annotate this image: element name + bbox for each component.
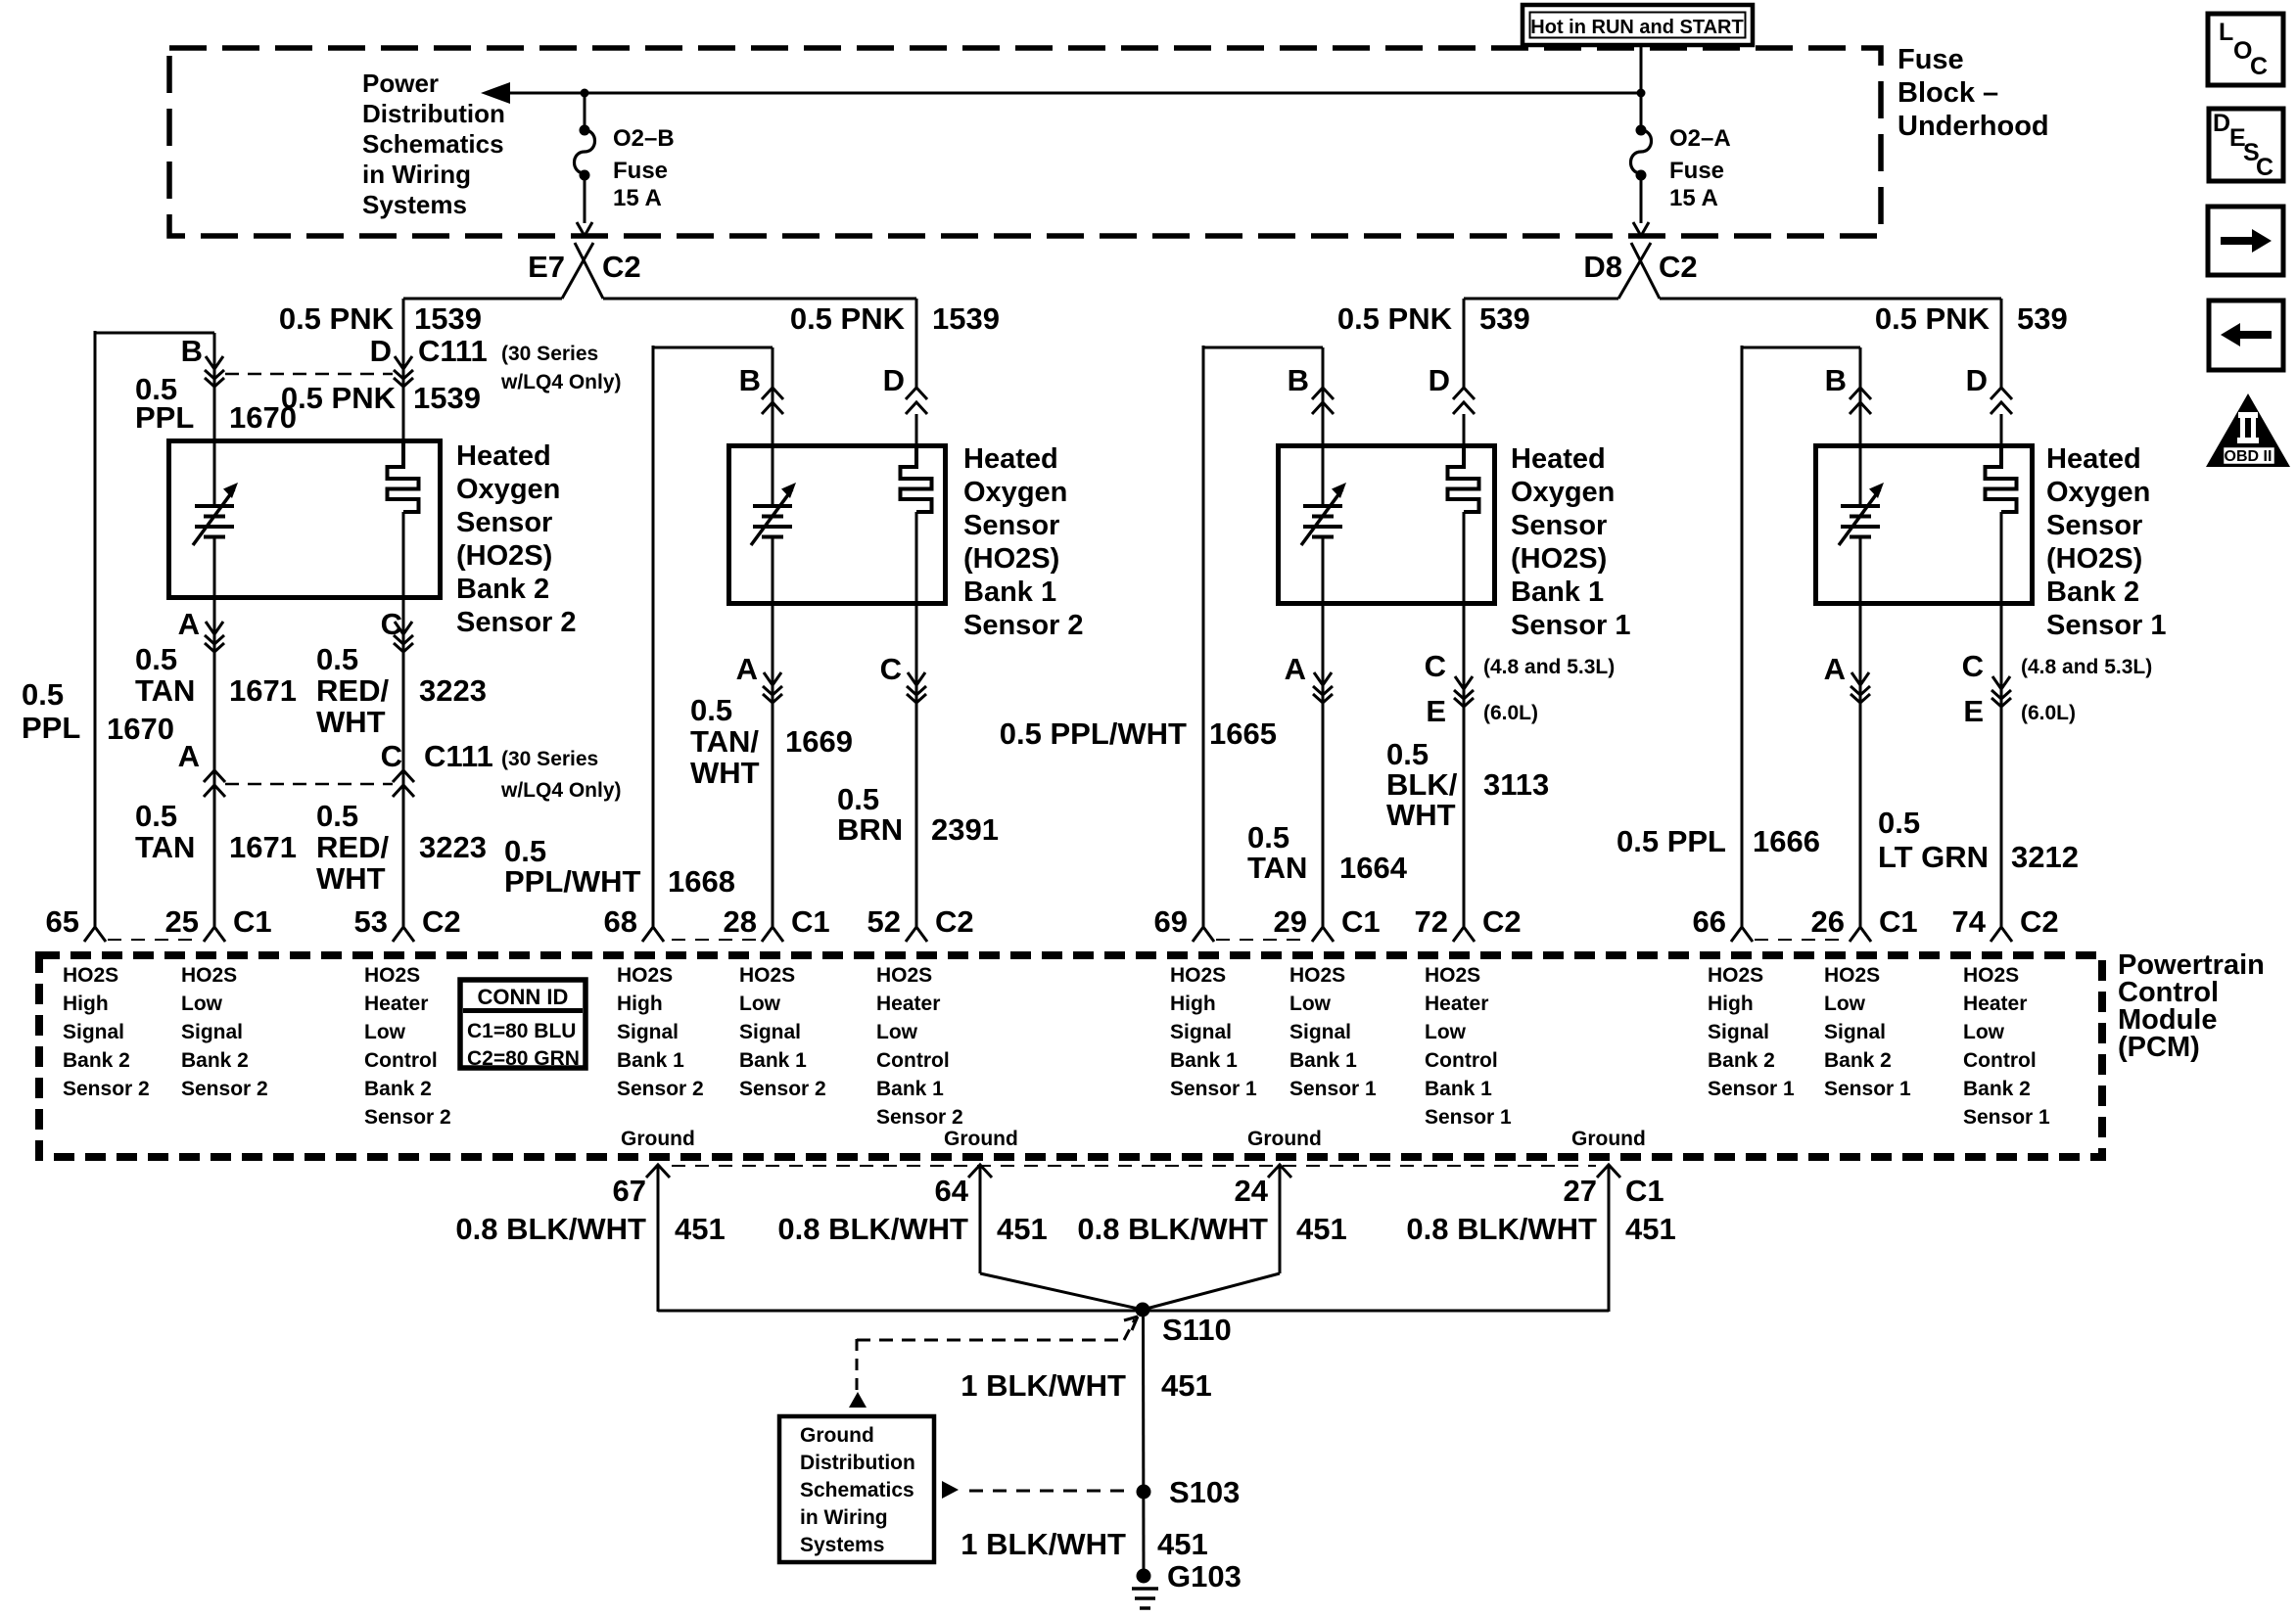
wire: g2 D lower (915, 512, 918, 927)
label: 0.5 PPL/WHT 1668 (504, 834, 735, 899)
svg-text:in Wiring: in Wiring (362, 160, 471, 189)
svg-text:Heated: Heated (1511, 443, 1606, 475)
label: PCM column at x=630 (617, 964, 704, 1100)
svg-text:0.8 BLK/WHT: 0.8 BLK/WHT (777, 1212, 968, 1246)
label: PCM column at x=1195 (1170, 964, 1257, 1100)
splice S103 (1137, 1485, 1151, 1500)
label: 0.5 PPL 1670 g1 B (135, 372, 297, 435)
pin 28 PCM (724, 904, 830, 942)
svg-text:Ground: Ground (621, 1128, 695, 1150)
svg-text:Sensor 2: Sensor 2 (739, 1078, 826, 1100)
svg-text:Sensor 2: Sensor 2 (456, 607, 577, 638)
svg-text:53: 53 (354, 904, 388, 939)
label: g2 B (739, 363, 761, 397)
svg-text:Distribution: Distribution (362, 99, 505, 128)
svg-text:A: A (1285, 652, 1306, 686)
svg-text:0.5 PNK: 0.5 PNK (279, 301, 395, 336)
svg-text:Sensor 2: Sensor 2 (364, 1106, 451, 1129)
sensor box HO2S Bank1 Sensor1 (1279, 446, 1495, 604)
svg-text:0.5 PNK: 0.5 PNK (790, 301, 906, 336)
svg-text:Power: Power (362, 69, 439, 98)
label: O2-B Fuse 15 A (613, 125, 675, 211)
svg-text:Heater: Heater (1963, 993, 2027, 1015)
svg-text:Block –: Block – (1898, 77, 1998, 109)
svg-text:HO2S: HO2S (1170, 964, 1226, 987)
wire: g4 B wire (1859, 347, 1862, 927)
svg-text:68: 68 (604, 904, 637, 939)
label: PCM column at x=185 (181, 964, 268, 1100)
label: g2 D (883, 363, 905, 397)
wire: g3 D inside box (1463, 414, 1466, 443)
wire: g3 D lower (1463, 512, 1466, 927)
svg-text:0.5: 0.5 (135, 799, 177, 833)
label: 0.5 LT GRN 3212 (1878, 806, 2079, 874)
svg-text:E7: E7 (528, 250, 565, 284)
svg-text:Ground: Ground (800, 1424, 874, 1447)
connector break g2 D top (906, 388, 927, 414)
wire: ground bus horizontal (658, 1310, 1609, 1313)
svg-text:Sensor 1: Sensor 1 (1170, 1078, 1257, 1100)
svg-text:Sensor 1: Sensor 1 (1425, 1106, 1512, 1129)
svg-text:Sensor: Sensor (1511, 510, 1607, 541)
svg-text:(HO2S): (HO2S) (456, 540, 552, 572)
connector: g1 A sensor plug (205, 622, 224, 652)
connector break g4 B top (1850, 388, 1871, 414)
svg-text:65: 65 (46, 904, 79, 939)
svg-text:(4.8 and 5.3L): (4.8 and 5.3L) (2021, 656, 2152, 678)
wire: hot feed vertical (1640, 45, 1643, 93)
svg-text:Underhood: Underhood (1898, 111, 2049, 142)
svg-text:Fuse: Fuse (1669, 158, 1724, 184)
svg-text:HO2S: HO2S (364, 964, 420, 987)
svg-text:0.5: 0.5 (504, 834, 546, 868)
node: bus junction at O2-B fuse (581, 89, 589, 98)
svg-text:High: High (1170, 993, 1216, 1015)
svg-text:451: 451 (1157, 1527, 1208, 1561)
svg-text:A: A (178, 607, 200, 641)
svg-text:Heated: Heated (2046, 443, 2141, 475)
svg-text:C1: C1 (1625, 1174, 1664, 1208)
svg-text:Sensor 1: Sensor 1 (1963, 1106, 2050, 1129)
svg-text:LT GRN: LT GRN (1878, 840, 1989, 874)
svg-text:CONN ID: CONN ID (478, 985, 569, 1009)
connector: g4 A sensor plug (1851, 672, 1870, 703)
svg-text:Bank 2: Bank 2 (1963, 1078, 2031, 1100)
label: 0.5 TAN/WHT 1669 (690, 693, 853, 790)
svg-text:Bank 1: Bank 1 (1511, 577, 1604, 608)
label: g1 C (381, 607, 402, 641)
svg-text:Bank 2: Bank 2 (1824, 1049, 1892, 1072)
CONN ID table (460, 980, 586, 1070)
wire: g3 PPL/WHT tall wire (1203, 346, 1323, 927)
label: g2 A (736, 652, 758, 686)
svg-text:Bank 2: Bank 2 (181, 1049, 249, 1072)
pin 65 PCM (46, 904, 106, 942)
svg-text:Low: Low (1289, 993, 1332, 1015)
svg-text:3113: 3113 (1483, 767, 1549, 802)
svg-text:539: 539 (1479, 301, 1530, 336)
svg-text:TAN: TAN (1247, 851, 1307, 885)
svg-text:C111: C111 (424, 739, 493, 773)
svg-text:0.5 PNK: 0.5 PNK (1875, 301, 1991, 336)
ground G103 symbol (1132, 1569, 1158, 1609)
label: Heated Oxygen Sensor (HO2S) Bank 1 Sensor 1 (1511, 443, 1631, 641)
svg-text:RED/: RED/ (316, 830, 389, 864)
svg-text:Low: Low (876, 1021, 918, 1043)
label: g1 D (370, 334, 392, 368)
svg-text:0.5 PPL: 0.5 PPL (1617, 824, 1726, 858)
label: g4 C (1962, 649, 1984, 683)
svg-text:C2: C2 (602, 250, 641, 284)
icon: DESC box (2209, 109, 2283, 181)
svg-text:Sensor 1: Sensor 1 (1824, 1078, 1911, 1100)
svg-text:B: B (739, 363, 761, 397)
svg-text:Low: Low (181, 993, 223, 1015)
label: C111 bottom (424, 739, 493, 773)
svg-text:1664: 1664 (1339, 851, 1408, 885)
svg-text:1670: 1670 (107, 712, 174, 746)
svg-text:Sensor 2: Sensor 2 (963, 610, 1084, 641)
svg-text:B: B (1825, 363, 1847, 397)
wire: g4 D inside box (2000, 414, 2003, 443)
label: g3 B (1288, 363, 1309, 397)
heater element g4 (1986, 443, 2017, 512)
svg-text:Sensor: Sensor (456, 507, 552, 538)
svg-text:HO2S: HO2S (1425, 964, 1480, 987)
sensor box HO2S Bank1 Sensor2 (729, 446, 946, 604)
svg-text:TAN: TAN (135, 830, 195, 864)
label: 0.5 PPL 1666 (1617, 824, 1820, 858)
svg-text:HO2S: HO2S (617, 964, 673, 987)
svg-text:Sensor 2: Sensor 2 (63, 1078, 150, 1100)
svg-text:Bank 1: Bank 1 (1289, 1049, 1357, 1072)
svg-text:WHT: WHT (1386, 798, 1456, 832)
svg-text:Heater: Heater (876, 993, 940, 1015)
svg-text:D: D (370, 334, 392, 368)
arrow: dashed ref to S103 (942, 1481, 1130, 1499)
svg-text:(HO2S): (HO2S) (963, 543, 1059, 575)
svg-text:25: 25 (165, 904, 199, 939)
svg-text:3212: 3212 (2011, 840, 2079, 874)
pin 74 PCM (1952, 904, 2059, 942)
svg-text:Signal: Signal (1708, 1021, 1769, 1043)
svg-text:Oxygen: Oxygen (456, 474, 560, 505)
svg-text:High: High (63, 993, 109, 1015)
svg-text:O2–B: O2–B (613, 125, 675, 152)
svg-text:Heated: Heated (456, 440, 551, 472)
svg-text:Bank 2: Bank 2 (2046, 577, 2139, 608)
svg-text:64: 64 (935, 1174, 969, 1208)
svg-text:C2: C2 (1482, 904, 1522, 939)
svg-text:Oxygen: Oxygen (1511, 477, 1615, 508)
label: G103 (1167, 1559, 1242, 1594)
svg-text:Bank 2: Bank 2 (1708, 1049, 1775, 1072)
svg-text:C: C (2256, 154, 2273, 181)
svg-text:1539: 1539 (413, 381, 481, 415)
icon: LOC box (2208, 14, 2283, 85)
svg-text:72: 72 (1415, 904, 1448, 939)
svg-text:27: 27 (1564, 1174, 1597, 1208)
label: 0.5 TAN 1671 upper (135, 642, 297, 708)
svg-text:(4.8 and 5.3L): (4.8 and 5.3L) (1483, 656, 1615, 678)
svg-text:Low: Low (1963, 1021, 2005, 1043)
label: Power Distribution Schematics in Wiring Systems (362, 69, 505, 219)
wire: D8 split right to g4 D (1660, 299, 2001, 388)
svg-text:C: C (381, 739, 402, 773)
connector: g2 C sensor plug (907, 672, 926, 703)
svg-text:Low: Low (1425, 1021, 1467, 1043)
svg-text:Schematics: Schematics (800, 1479, 914, 1501)
svg-text:C: C (1425, 649, 1446, 683)
svg-text:29: 29 (1274, 904, 1307, 939)
svg-text:HO2S: HO2S (876, 964, 932, 987)
label: Heated Oxygen Sensor (HO2S) Bank 2 Sensor 1 (2046, 443, 2167, 641)
svg-text:0.8 BLK/WHT: 0.8 BLK/WHT (1406, 1212, 1597, 1246)
svg-text:0.5 PNK: 0.5 PNK (281, 381, 397, 415)
svg-text:C: C (880, 652, 902, 686)
label: 0.5 PNK 539 g4 (1875, 301, 2068, 336)
label: PCM column at x=895 (876, 964, 963, 1129)
connector break g4 D top (1991, 388, 2012, 414)
wire: g1 B wire (213, 333, 216, 927)
svg-text:451: 451 (1625, 1212, 1676, 1246)
label: g4 D (1966, 363, 1988, 397)
label: S103 (1169, 1475, 1240, 1509)
svg-text:RED/: RED/ (316, 673, 389, 708)
svg-text:C2=80 GRN: C2=80 GRN (467, 1047, 580, 1070)
svg-text:WHT: WHT (316, 861, 386, 896)
svg-text:(30 Series: (30 Series (501, 343, 598, 365)
svg-text:Oxygen: Oxygen (2046, 477, 2150, 508)
svg-text:WHT: WHT (316, 705, 386, 739)
svg-text:3223: 3223 (419, 830, 487, 864)
connector break g3 B top (1312, 388, 1334, 414)
svg-text:(30 Series: (30 Series (501, 748, 598, 770)
label: g3 C (1425, 649, 1446, 683)
sensor box HO2S Bank2 Sensor2 (169, 441, 441, 598)
label: 4.8 and 5.3L g4 (2021, 656, 2152, 678)
svg-text:D8: D8 (1583, 250, 1622, 284)
svg-text:Sensor 1: Sensor 1 (1511, 610, 1631, 641)
svg-text:BLK/: BLK/ (1386, 767, 1458, 802)
label: Heated Oxygen Sensor (HO2S) Bank 1 Sensor 2 (963, 443, 1084, 641)
label: 0.8 BLK/WHT 451 x4 (455, 1212, 1675, 1246)
svg-text:0.5: 0.5 (837, 782, 879, 816)
svg-text:C111: C111 (418, 334, 488, 368)
label: g4 B (1825, 363, 1847, 397)
wire: g2 PPL/WHT tall wire (653, 346, 773, 927)
connector: g3 A sensor plug (1313, 672, 1333, 703)
svg-text:Control: Control (1963, 1049, 2037, 1072)
svg-text:Heater: Heater (1425, 993, 1488, 1015)
svg-text:Sensor: Sensor (963, 510, 1059, 541)
svg-text:TAN/: TAN/ (690, 724, 759, 759)
label: 6.0L g4 (2021, 702, 2076, 724)
svg-text:A: A (1824, 652, 1846, 686)
label: Powertrain Control Module (PCM) (2118, 949, 2265, 1063)
svg-text:B: B (1288, 363, 1309, 397)
wire: g2 D inside box (915, 414, 918, 443)
svg-text:C2: C2 (2020, 904, 2059, 939)
svg-text:2391: 2391 (931, 812, 999, 847)
pin 66 PCM (1693, 904, 1753, 942)
wire: g4 D lower (2000, 512, 2003, 927)
arrow: dashed ref to S110 (849, 1317, 1138, 1408)
svg-text:HO2S: HO2S (63, 964, 118, 987)
svg-text:Sensor: Sensor (2046, 510, 2142, 541)
svg-text:Bank 1: Bank 1 (1170, 1049, 1238, 1072)
svg-text:(HO2S): (HO2S) (1511, 543, 1607, 575)
connector C111 at g1 A bottom (204, 770, 225, 797)
svg-text:Systems: Systems (800, 1534, 884, 1556)
heater element g1 (388, 443, 419, 512)
svg-text:15 A: 15 A (1669, 185, 1718, 211)
svg-text:A: A (736, 652, 758, 686)
svg-text:451: 451 (675, 1212, 726, 1246)
svg-text:BRN: BRN (837, 812, 903, 847)
svg-text:C1=80 BLU: C1=80 BLU (467, 1020, 576, 1042)
svg-text:L: L (2219, 19, 2233, 46)
svg-text:HO2S: HO2S (181, 964, 237, 987)
svg-text:Control: Control (1425, 1049, 1498, 1072)
svg-text:Sensor 1: Sensor 1 (1289, 1078, 1377, 1100)
svg-text:Schematics: Schematics (362, 129, 504, 159)
label: 1 BLK/WHT 451 upper (961, 1368, 1212, 1403)
svg-text:1668: 1668 (668, 864, 735, 899)
label: Ground Distribution Schematics in Wiring Systems (800, 1424, 915, 1556)
wire: pin 64 drop to S110 (980, 1167, 1143, 1310)
label: D8 (1583, 250, 1622, 284)
svg-text:Heated: Heated (963, 443, 1058, 475)
svg-text:451: 451 (1161, 1368, 1212, 1403)
svg-text:E: E (1963, 694, 1984, 728)
svg-text:0.5: 0.5 (1878, 806, 1920, 840)
o2 cell element g1 (193, 483, 238, 545)
pin 68 PCM (604, 904, 664, 942)
wire: E7 split right to g2 D (603, 299, 916, 388)
svg-text:C1: C1 (791, 904, 830, 939)
wire: power distribution bus (505, 92, 1641, 95)
svg-text:Distribution: Distribution (800, 1452, 915, 1474)
label: g4 E (1963, 694, 1984, 728)
sensor box HO2S Bank2 Sensor1 (1816, 446, 2033, 604)
dashed: C111 top link (225, 373, 393, 376)
splice S110 (1136, 1303, 1150, 1317)
label: g3 E (1426, 694, 1446, 728)
pin 27 PCM ground (1564, 1165, 1664, 1208)
node: bus junction at O2-A fuse (1637, 89, 1646, 98)
svg-text:0.8 BLK/WHT: 0.8 BLK/WHT (455, 1212, 646, 1246)
svg-text:0.5: 0.5 (316, 799, 358, 833)
wire: D8 split left to g3 D (1464, 299, 1618, 388)
pin 67 PCM ground (613, 1165, 670, 1208)
svg-text:0.5 PPL/WHT: 0.5 PPL/WHT (1000, 716, 1187, 751)
svg-text:Bank 2: Bank 2 (456, 574, 549, 605)
svg-text:S110: S110 (1162, 1313, 1232, 1347)
svg-text:D: D (2213, 110, 2230, 137)
pin 24 PCM ground (1235, 1165, 1291, 1208)
svg-text:Signal: Signal (617, 1021, 679, 1043)
svg-text:74: 74 (1952, 904, 1987, 939)
svg-text:Sensor 2: Sensor 2 (617, 1078, 704, 1100)
icon: left arrow box (2209, 300, 2283, 370)
svg-text:15 A: 15 A (613, 185, 662, 211)
label: PCM column at x=1863 (1824, 964, 1911, 1100)
o2 cell element g3 (1301, 483, 1346, 545)
svg-text:1 BLK/WHT: 1 BLK/WHT (961, 1527, 1126, 1561)
svg-text:Ground: Ground (944, 1128, 1018, 1150)
heater element g3 (1448, 443, 1479, 512)
label: 0.5 PPL/WHT 1665 (1000, 716, 1277, 751)
label: PCM column at x=755 (739, 964, 826, 1100)
svg-text:Systems: Systems (362, 190, 467, 219)
connector: g4 C/E sensor plug (1991, 676, 2011, 707)
svg-text:Signal: Signal (63, 1021, 124, 1043)
svg-text:69: 69 (1154, 904, 1188, 939)
svg-text:C2: C2 (1659, 250, 1698, 284)
label: g3 A (1285, 652, 1306, 686)
label: C111 top (418, 334, 488, 368)
label: Heated Oxygen Sensor (HO2S) Bank 2 Sensor 2 (456, 440, 577, 638)
svg-text:451: 451 (997, 1212, 1048, 1246)
svg-text:PPL/WHT: PPL/WHT (504, 864, 641, 899)
svg-text:HO2S: HO2S (739, 964, 795, 987)
label: 0.5 BRN 2391 (837, 782, 999, 847)
svg-text:0.5: 0.5 (1386, 737, 1429, 771)
svg-text:C: C (2250, 53, 2268, 80)
label: S110 (1162, 1313, 1232, 1347)
connector: g1 C sensor plug (394, 622, 413, 652)
svg-text:0.5: 0.5 (316, 642, 358, 676)
label: 0.5 TAN 1671 lower (135, 799, 297, 864)
pin 26 PCM (1811, 904, 1918, 942)
connector C111 at g1 D top (394, 356, 413, 387)
label: g1 C lower (381, 739, 402, 773)
fuse O2-B 15A (575, 93, 595, 236)
wire: pin 27 drop (1608, 1167, 1611, 1312)
svg-text:D: D (1429, 363, 1450, 397)
label: Fuse Block - Underhood (1898, 44, 2049, 142)
svg-text:Oxygen: Oxygen (963, 477, 1067, 508)
svg-text:(6.0L): (6.0L) (2021, 702, 2076, 724)
svg-text:66: 66 (1693, 904, 1726, 939)
label: E7 (528, 250, 565, 284)
svg-text:0.8 BLK/WHT: 0.8 BLK/WHT (1077, 1212, 1268, 1246)
svg-text:Heater: Heater (364, 993, 428, 1015)
dashed: pin connector row links (108, 939, 1848, 941)
pin 72 PCM (1415, 904, 1522, 942)
connector E7/C2 X symbol (562, 243, 603, 299)
label: g3 D (1429, 363, 1450, 397)
svg-text:High: High (1708, 993, 1754, 1015)
label: PCM column at x=372 (364, 964, 451, 1129)
svg-text:0.5 PNK: 0.5 PNK (1337, 301, 1453, 336)
svg-text:28: 28 (724, 904, 757, 939)
svg-text:w/LQ4 Only): w/LQ4 Only) (500, 779, 622, 802)
label: 0.5 RED/WHT 3223 lower (316, 799, 487, 896)
svg-text:Bank 1: Bank 1 (963, 577, 1056, 608)
pin 53 PCM (354, 904, 461, 942)
label: 0.5 PNK 539 g3 (1337, 301, 1530, 336)
connector D8/C2 X symbol (1618, 243, 1660, 299)
svg-text:Low: Low (739, 993, 781, 1015)
connector C111 at g1 C bottom (393, 770, 414, 797)
svg-text:E: E (1426, 694, 1446, 728)
svg-text:1669: 1669 (785, 724, 853, 759)
svg-text:1 BLK/WHT: 1 BLK/WHT (961, 1368, 1126, 1403)
svg-text:HO2S: HO2S (1824, 964, 1880, 987)
svg-text:52: 52 (867, 904, 901, 939)
